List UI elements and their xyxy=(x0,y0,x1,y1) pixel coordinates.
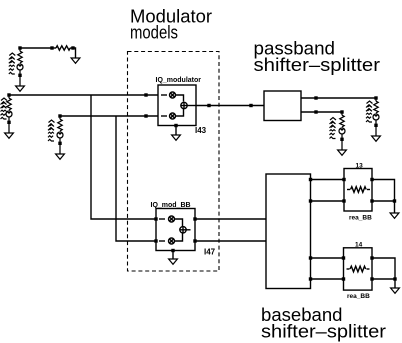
junction res14 right top xyxy=(370,256,373,259)
ground (P3) xyxy=(56,154,65,159)
wire: res_BB 14 right top xyxy=(372,258,395,288)
wire V1: I branch down to IQ_mod_BB xyxy=(91,95,156,219)
ground (Term1) xyxy=(372,136,381,141)
junction splitter out4 xyxy=(309,277,312,280)
mixer M3 xyxy=(159,218,165,220)
op block IQ_modulator I43 xyxy=(158,85,196,135)
adder A1 xyxy=(181,102,187,108)
junction res14 right bottom xyxy=(370,277,373,280)
block baseband shifter-splitter xyxy=(266,174,311,289)
junction Term1 top xyxy=(374,96,377,99)
mixer M4 xyxy=(159,240,165,242)
junction passband out1 xyxy=(314,96,317,99)
junction splitter out3 xyxy=(309,256,312,259)
wire: splitter out1 to res_BB 13 xyxy=(311,179,345,181)
wire: res_BB 14 right bottom xyxy=(372,278,395,280)
value label Term2 xyxy=(330,118,337,139)
source SRC1 (top left, V_1Tone) xyxy=(17,48,23,86)
title "Modulator models" xyxy=(130,7,212,43)
adder A2 xyxy=(180,227,186,233)
svg-text:13: 13 xyxy=(356,163,364,170)
ground (res_BB 14) xyxy=(391,288,400,293)
junction P3 top xyxy=(58,114,61,117)
junction R1 left xyxy=(50,46,53,49)
junction R1 right xyxy=(71,46,74,49)
junction P2 top xyxy=(7,93,10,96)
ground (res_BB 13) xyxy=(390,213,399,218)
mixer M2 (Q) xyxy=(161,115,167,117)
junction res13 right bottom xyxy=(370,199,373,202)
label "passband shifter-splitter" xyxy=(254,39,381,76)
ground (Term2) xyxy=(338,150,347,155)
termination Term2 (passband out2) xyxy=(339,112,345,150)
source P2 (left edge, I input) xyxy=(6,95,12,133)
ground lead xyxy=(175,126,177,136)
junction res14 left bottom xyxy=(342,277,345,280)
wire: res_BB 13 right bottom xyxy=(372,200,395,202)
junction res14 ground net xyxy=(393,277,396,280)
wire: passband out1 xyxy=(301,97,376,99)
svg-text:14: 14 xyxy=(355,242,363,249)
junction passband out2 xyxy=(314,110,317,113)
svg-text:rea_BB: rea_BB xyxy=(347,293,370,300)
junction BB out bottom xyxy=(193,239,196,242)
wire: res_BB 13 right top xyxy=(372,180,395,214)
wire: BB out Q to splitter xyxy=(195,240,266,242)
junction res13 left bottom xyxy=(342,199,345,202)
source P3 (Q input) xyxy=(57,116,63,154)
junction modulator output xyxy=(207,104,210,107)
wire net VQ: source P3 to modulator input Q xyxy=(60,115,158,117)
block passband shifter-splitter xyxy=(264,91,301,121)
svg-text:I47: I47 xyxy=(204,248,216,257)
label "baseband shifter-splitter" xyxy=(261,305,386,342)
wire: BB out I to splitter xyxy=(195,218,266,220)
svg-text:shifter–splitter: shifter–splitter xyxy=(254,55,381,75)
junction splitter out2 xyxy=(309,199,312,202)
wire: splitter out3 to res_BB 14 xyxy=(311,257,344,259)
mixer M1 (I) xyxy=(161,94,167,96)
wire: passband out2 xyxy=(301,111,342,113)
dashed modulator-models box xyxy=(128,52,220,272)
junction BB ground pin xyxy=(171,249,174,252)
resistor R1 (horizontal) xyxy=(52,46,76,58)
value label SRC1 xyxy=(9,53,16,74)
junction BB pin Q xyxy=(154,239,157,242)
junction BB out top xyxy=(193,217,196,220)
junction splitter out1 xyxy=(309,178,312,181)
op block IQ_mod_BB I47 xyxy=(156,209,195,260)
wire SRC1 to R1 xyxy=(20,47,52,49)
value label P2 xyxy=(1,98,8,119)
svg-text:shifter–splitter: shifter–splitter xyxy=(261,322,386,342)
junction res13 right top xyxy=(370,178,373,181)
termination Term1 (passband out1) xyxy=(373,98,379,136)
svg-text:I43: I43 xyxy=(195,126,207,135)
resistor block res_BB 13 xyxy=(344,169,372,212)
wire: splitter out2 to res_BB 13 xyxy=(311,200,345,202)
junction SRC1 top xyxy=(18,46,21,49)
junction res13 ground net xyxy=(393,199,396,202)
junction modulator pin Q xyxy=(144,114,147,117)
junction res13 left top xyxy=(342,178,345,181)
junction Term2 top xyxy=(340,110,343,113)
value label P3 xyxy=(48,120,55,141)
junction modulator ground pin xyxy=(174,124,177,127)
resistor block res_BB 14 xyxy=(344,248,373,290)
wire: splitter out4 to res_BB 14 xyxy=(311,278,344,280)
ground (P2) xyxy=(5,133,14,138)
wire V2: Q branch down to IQ_mod_BB xyxy=(116,116,156,241)
value label Term1 xyxy=(366,101,373,122)
ground (SRC1) xyxy=(16,86,25,91)
wire: modulator output to passband block xyxy=(196,105,264,107)
svg-text:IQ_modulator: IQ_modulator xyxy=(156,77,202,84)
junction res14 left top xyxy=(342,256,345,259)
ground (IQ_modulator) xyxy=(172,135,181,140)
svg-text:models: models xyxy=(130,23,178,43)
svg-text:IQ_mod_BB: IQ_mod_BB xyxy=(151,202,191,209)
svg-text:rea_BB: rea_BB xyxy=(349,215,372,222)
junction BB pin I xyxy=(154,217,157,220)
ground lead xyxy=(172,251,174,260)
ground (R1) xyxy=(71,58,80,63)
junction passband input xyxy=(249,104,252,107)
junction modulator pin I xyxy=(144,93,147,96)
ground (IQ_mod_BB) xyxy=(169,259,178,264)
wire net VI: source P2 to modulator input I xyxy=(9,94,158,96)
